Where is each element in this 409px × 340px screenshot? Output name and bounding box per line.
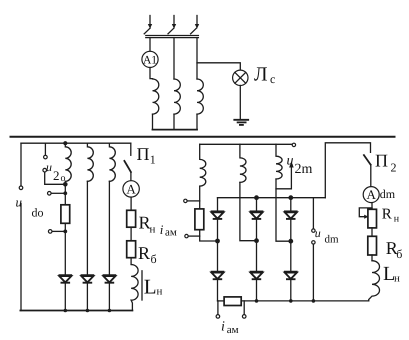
- svg-text:R: R: [138, 243, 150, 263]
- wire phase 1 to ammeter: [149, 38, 151, 52]
- svg-text:dm: dm: [380, 187, 396, 201]
- wire phase 2: [173, 38, 175, 79]
- wire Rn to Rb: [130, 227, 132, 241]
- label i_am left: [160, 222, 177, 239]
- ammeter A1: [142, 51, 158, 67]
- resistor Rb left: [127, 241, 136, 258]
- svg-text:б: б: [151, 252, 157, 266]
- label u_dm: [315, 226, 339, 246]
- node rail c: [289, 299, 293, 303]
- wire tap lower: [52, 230, 65, 232]
- svg-text:u: u: [315, 226, 321, 240]
- wire Rn to Rb right: [371, 228, 373, 236]
- switch P2 blade: [364, 155, 371, 165]
- label lamp: [254, 64, 275, 87]
- wire ammeter to Rn: [130, 197, 132, 210]
- wire i_am terminal to shunt column: [188, 235, 200, 237]
- diode VD2 top: [250, 211, 264, 219]
- inductor Ln right: [369, 261, 380, 301]
- label i_am bottom: [221, 320, 239, 337]
- wire Rb to Ln right: [371, 255, 373, 261]
- svg-text:2: 2: [391, 161, 397, 175]
- label Ln left: [144, 275, 163, 299]
- wire lamp to ground: [239, 86, 241, 120]
- svg-text:б: б: [396, 247, 402, 261]
- switch P1 fixed stub: [130, 143, 132, 155]
- node bus b: [254, 195, 259, 200]
- terminal i_am left bottom: [216, 315, 220, 319]
- svg-text:R: R: [382, 206, 392, 222]
- terminal feeder end: [292, 143, 295, 146]
- diode VD5 bottom: [250, 272, 264, 280]
- wire coil1 bottom: [152, 114, 154, 130]
- svg-text:П: П: [137, 144, 150, 164]
- svg-text:do: do: [32, 206, 44, 220]
- wire m-coil2 to phase node: [240, 182, 257, 240]
- terminal u_2o upper: [44, 155, 48, 159]
- label P1: [137, 144, 156, 167]
- node rail b: [255, 299, 259, 303]
- wire bottom diode2 to rail: [256, 280, 258, 301]
- svg-text:L: L: [144, 275, 157, 299]
- wire coil3 bottom: [196, 114, 198, 130]
- inductor Ln left: [131, 265, 138, 311]
- wire bottom diode1 to shunt: [217, 280, 219, 301]
- supply phase arrow 2: [172, 16, 176, 29]
- svg-text:ам: ам: [165, 227, 177, 239]
- wire coil2 to diode: [86, 181, 88, 274]
- svg-text:1: 1: [150, 153, 156, 167]
- svg-text:ам: ам: [227, 324, 239, 336]
- wire phase 3: [196, 38, 198, 79]
- positive bus of bridge: [218, 197, 326, 199]
- wire bus to top diode 3: [290, 198, 292, 211]
- supply phase arrow 3: [195, 16, 199, 29]
- wire top diode1 to node: [217, 220, 219, 241]
- wire ammeter to Rn right: [371, 203, 373, 210]
- diode V3: [103, 275, 117, 283]
- wire m-coil1 to shunt: [199, 186, 201, 209]
- secondary winding m-coil 1: [200, 144, 206, 186]
- label P2: [375, 151, 397, 175]
- wire i_am tap right: [243, 301, 245, 315]
- wire bus to top diode 1: [217, 198, 219, 211]
- svg-text:i: i: [221, 320, 225, 335]
- node shunt tap lower: [63, 230, 67, 234]
- wire diode2 to rail: [86, 284, 88, 311]
- middle section feeder line: [200, 143, 293, 145]
- wire u_do tap lower: [20, 204, 22, 311]
- svg-text:н: н: [150, 224, 156, 236]
- diode VD3 top: [284, 211, 298, 219]
- secondary winding o-coil 1: [65, 143, 71, 184]
- secondary winding o-coil 3: [109, 143, 115, 181]
- primary winding coil 1: [153, 79, 159, 115]
- svg-text:н: н: [157, 286, 163, 298]
- wire Rb to Ln: [130, 258, 132, 265]
- shunt resistor box left: [61, 205, 70, 224]
- terminal i_am left: [185, 234, 188, 237]
- wire m-coil3 to phase node: [276, 179, 291, 241]
- node rail 2: [86, 309, 90, 313]
- svg-text:2m: 2m: [295, 162, 313, 177]
- svg-text:u: u: [46, 160, 52, 174]
- diode VD4 bottom: [211, 272, 225, 280]
- wire blade to ammeter dm: [370, 165, 372, 187]
- node rail 3: [108, 309, 112, 313]
- diode VD6 bottom: [284, 272, 298, 280]
- wire i_am tap left: [217, 301, 219, 315]
- wire top diode3 to node: [290, 220, 292, 242]
- svg-text:u: u: [287, 154, 294, 169]
- wire diode1 into shunt: [218, 300, 225, 302]
- wire coil2 bottom: [173, 114, 175, 130]
- wire shunt to phase node: [200, 230, 218, 241]
- wire branch to lamp: [197, 63, 240, 70]
- resistor Rb right: [368, 236, 377, 255]
- svg-text:A: A: [367, 187, 377, 202]
- wire ammeter to primary coil 1: [150, 68, 153, 79]
- label Rn right: [382, 206, 400, 224]
- svg-text:dm: dm: [325, 234, 340, 246]
- wire u_dm tap upper: [312, 198, 314, 229]
- diode VD1 top: [211, 211, 225, 219]
- svg-text:н: н: [394, 273, 400, 285]
- svg-text:i: i: [160, 222, 164, 237]
- node coil 1 bottom: [63, 182, 68, 187]
- svg-text:A: A: [126, 182, 136, 197]
- wire u_2o stub: [44, 143, 46, 155]
- label Rb left: [138, 243, 157, 266]
- middle bottom rail: [241, 300, 369, 302]
- wire coil1 to diode: [64, 184, 66, 274]
- core bar Ln left: [141, 271, 143, 300]
- node rail 1: [64, 309, 68, 313]
- ammeter A left: [123, 181, 139, 197]
- wire bridge bus to P2 hook: [325, 143, 370, 198]
- wire coil3 to diode: [108, 181, 110, 274]
- node rail u_dm: [312, 299, 316, 303]
- wire m-shunt upper tap: [187, 200, 200, 202]
- primary winding coil 3: [197, 79, 203, 114]
- left section feeder line: [21, 142, 131, 144]
- switch linkage double bar: [146, 36, 199, 38]
- wire u_do tap upper: [20, 143, 22, 186]
- terminal u_2o lower: [43, 168, 47, 172]
- wire top diode2 to node: [256, 220, 258, 241]
- wire diode1 to rail: [64, 284, 66, 311]
- secondary winding m-coil 3: [276, 144, 282, 179]
- terminal u_dm upper: [312, 229, 315, 232]
- switch blade phase 3: [191, 28, 197, 34]
- primary winding coil 2: [174, 79, 180, 114]
- label u_do: [16, 195, 44, 220]
- left bottom rail: [20, 310, 132, 312]
- diode V2: [81, 275, 95, 283]
- node phase c: [288, 239, 293, 244]
- node phase a: [215, 239, 220, 244]
- label u_2m: [287, 154, 313, 178]
- primary star bottom wire: [153, 129, 198, 131]
- node coil 1 top: [63, 141, 67, 145]
- shunt resistor box bottom: [224, 297, 241, 306]
- wire diode3 to rail: [108, 284, 110, 311]
- arrow u_2m: [289, 161, 294, 167]
- ammeter A dm: [363, 187, 396, 203]
- node phase b: [254, 238, 259, 243]
- label Ln right: [383, 263, 400, 285]
- wire u_dm tap lower: [312, 244, 314, 301]
- ground: [234, 120, 248, 125]
- switch blade phase 2: [168, 28, 174, 34]
- svg-text:2: 2: [53, 168, 60, 183]
- node bus c: [288, 195, 293, 200]
- terminal u_dm lower: [312, 241, 315, 244]
- wire node c to bottom diode 3: [290, 241, 292, 271]
- resistor Rn left: [127, 210, 136, 227]
- terminal shunt lower: [48, 230, 52, 234]
- label u_2o: [46, 160, 66, 184]
- wire bottom diode3 to rail: [290, 280, 292, 301]
- supply phase arrow 1: [148, 16, 152, 29]
- terminal shunt upper: [48, 192, 52, 196]
- wire bus to top diode 2: [256, 198, 258, 211]
- secondary winding o-coil 2: [87, 143, 93, 181]
- rheostat arrow Rn: [359, 208, 372, 219]
- resistor Rn right: [368, 209, 377, 228]
- svg-text:П: П: [375, 151, 388, 171]
- wire u_2o lower to coil bottom: [45, 172, 66, 184]
- signal lamp: [233, 70, 248, 85]
- label Rb right: [386, 238, 403, 261]
- terminal u_do upper: [19, 186, 23, 190]
- node shunt tap upper: [63, 191, 67, 195]
- shunt resistor box middle: [195, 209, 204, 230]
- wire node b to bottom diode 2: [256, 241, 258, 271]
- terminal m-shunt upper: [184, 199, 187, 202]
- wire blade to ammeter: [130, 172, 132, 181]
- svg-text:Л: Л: [254, 64, 268, 86]
- svg-text:с: с: [270, 72, 275, 86]
- label Rn left: [139, 213, 156, 236]
- terminal i_am right bottom: [242, 315, 246, 319]
- svg-text:н: н: [394, 213, 400, 224]
- wire u_2m arrow stub: [276, 166, 291, 189]
- svg-text:A1: A1: [143, 54, 157, 66]
- secondary winding m-coil 2: [240, 144, 246, 182]
- main bus bar: [10, 136, 396, 138]
- switch blade phase 1: [144, 28, 150, 34]
- wire tap upper: [51, 192, 65, 194]
- wire node a to bottom diode 1: [217, 241, 219, 271]
- diode V1: [59, 275, 73, 283]
- switch P1 blade: [124, 161, 130, 172]
